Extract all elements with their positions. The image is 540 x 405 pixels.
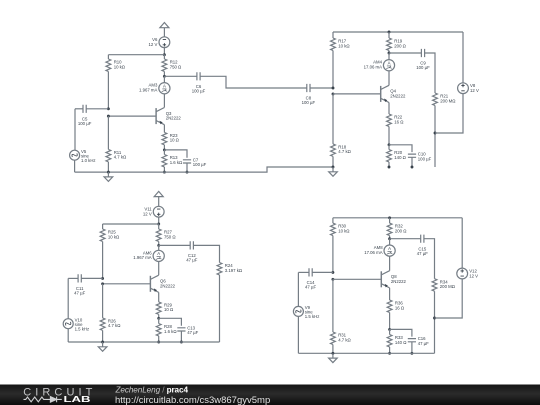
power flag V+ (stage 3) bbox=[154, 191, 163, 206]
svg-text:200 Ω: 200 Ω bbox=[394, 43, 406, 48]
wire V9 bottom lead bbox=[297, 316, 299, 353]
wire R20 top lead bbox=[388, 145, 390, 150]
wire R34 bottom to rail bbox=[434, 291, 436, 353]
svg-text:10 Ω: 10 Ω bbox=[164, 307, 174, 312]
junction emitter node stage 1 bbox=[163, 148, 166, 151]
junction C16 to ground rail bbox=[410, 352, 413, 355]
wire V12 top to supply rail bbox=[461, 218, 463, 268]
wire R20 bottom lead bbox=[388, 162, 390, 167]
junction R19 top bbox=[388, 31, 391, 34]
svg-text:1.6 kΩ: 1.6 kΩ bbox=[170, 160, 183, 165]
svg-text:100 µF: 100 µF bbox=[78, 121, 92, 126]
svg-text:47 µF: 47 µF bbox=[418, 341, 429, 346]
svg-text:2N2222: 2N2222 bbox=[160, 283, 176, 288]
svg-text:http://circuitlab.com/cs3w867g: http://circuitlab.com/cs3w867gyv5mp bbox=[115, 395, 270, 405]
svg-text:750 Ω: 750 Ω bbox=[170, 64, 182, 69]
junction emitter node stage 4 bbox=[388, 328, 391, 331]
svg-text:A: A bbox=[163, 84, 166, 89]
wire R25 top lead bbox=[102, 224, 104, 229]
junction R32 top bbox=[388, 216, 391, 219]
wire ground rail stage 1 to stage 2 bbox=[75, 167, 333, 172]
wire C14 to bias node bbox=[312, 271, 333, 273]
wire collector node to C15 bbox=[390, 238, 421, 240]
svg-text:A: A bbox=[157, 251, 160, 256]
wire ground rail stage 3 bbox=[68, 341, 219, 343]
svg-text:750 Ω: 750 Ω bbox=[164, 234, 176, 239]
wire R13 bottom lead bbox=[163, 167, 165, 172]
junction ground tap stage 2 bbox=[332, 166, 335, 169]
resistor R13 1.6 kΩ bbox=[162, 155, 183, 167]
wire R25 bottom to base node bbox=[102, 242, 104, 279]
resistor R20 140 Ω bbox=[387, 150, 407, 162]
wire Q4 base bbox=[333, 93, 381, 95]
wire AM4 top lead bbox=[388, 53, 390, 60]
source V9 sine 1.5 kHz bbox=[293, 305, 319, 319]
capacitor C9 100 µF bbox=[416, 49, 430, 70]
capacitor C6 100 µF bbox=[192, 72, 206, 93]
svg-text:10 kΩ: 10 kΩ bbox=[114, 64, 126, 69]
junction R20 to ground rail bbox=[388, 166, 391, 169]
wire R29 to emitter node bbox=[158, 314, 160, 318]
wire AM4 to Q4 collector bbox=[388, 71, 390, 86]
voltage source V6 12 V bbox=[149, 37, 170, 48]
wire V11 to supply node bbox=[158, 217, 160, 224]
resistor R18 4.7 kΩ bbox=[331, 144, 352, 156]
junction Q3 base node bbox=[107, 115, 110, 118]
wire base node to R18 bbox=[332, 94, 334, 144]
junction R28 to ground rail bbox=[157, 341, 160, 344]
wire C15 to R34 bbox=[424, 239, 435, 279]
transistor Q6 2N2222 bbox=[150, 275, 175, 292]
wire supply rail stage 1 bbox=[108, 54, 164, 56]
resistor R33 140 Ω bbox=[387, 335, 407, 347]
junction C8 input node stage 2 bbox=[332, 87, 335, 90]
wire bias node to R26 bbox=[102, 284, 104, 318]
resistor R12 750 Ω bbox=[162, 59, 182, 71]
wire AM3 to Q3 collector bbox=[163, 94, 165, 108]
svg-text:2N2222: 2N2222 bbox=[166, 116, 182, 121]
junction emitter node stage 2 bbox=[388, 143, 391, 146]
capacitor C16 47 µF bbox=[408, 336, 429, 346]
capacitor C7 100 µF bbox=[183, 157, 207, 167]
wire Q6 emitter lead bbox=[158, 292, 160, 302]
source V5 sine 1.0 kHz bbox=[70, 149, 96, 163]
resistor R29 10 Ω bbox=[156, 302, 174, 314]
wire Q3 emitter lead bbox=[163, 125, 165, 133]
wire C11 to bias node bbox=[81, 277, 102, 279]
svg-text:200 MΩ: 200 MΩ bbox=[440, 284, 456, 289]
resistor R19 200 Ω bbox=[387, 38, 407, 50]
wire R11 bottom lead bbox=[107, 162, 109, 172]
svg-text:4.7 kΩ: 4.7 kΩ bbox=[114, 155, 127, 160]
resistor R22 16 Ω bbox=[387, 114, 405, 126]
resistor R21 200 MΩ bbox=[433, 93, 457, 105]
wire R10 bottom to base node bbox=[107, 72, 109, 109]
wire C12 to R24 bbox=[193, 245, 219, 262]
wire R32 bottom lead bbox=[389, 236, 391, 239]
wire supply rail stage 3 bbox=[103, 223, 159, 225]
junction supply node stage 1 bbox=[163, 53, 166, 56]
resistor R17 10 kΩ bbox=[331, 38, 351, 50]
junction emitter node stage 3 bbox=[157, 317, 160, 320]
svg-text:A: A bbox=[388, 246, 391, 251]
svg-text:1.967 mA: 1.967 mA bbox=[139, 87, 158, 92]
junction Q6 base node bbox=[101, 282, 104, 285]
svg-text:100 µF: 100 µF bbox=[416, 65, 430, 70]
wire V6 to supply node bbox=[163, 48, 165, 55]
svg-text:100 µF: 100 µF bbox=[302, 100, 316, 105]
wire R22 to emitter node bbox=[388, 127, 390, 145]
wire ground rail stage 4 bbox=[298, 352, 434, 354]
ammeter AM8 17.06 mA bbox=[364, 245, 395, 256]
wire V5 bottom lead bbox=[74, 160, 76, 172]
svg-text:4.7 kΩ: 4.7 kΩ bbox=[338, 149, 351, 154]
svg-text:100 µF: 100 µF bbox=[418, 156, 432, 161]
wire bias node to R31 bbox=[332, 279, 334, 332]
ammeter AM6 1.967 mA bbox=[133, 250, 164, 261]
wire V10 bottom lead bbox=[67, 329, 69, 342]
svg-text:3.197 kΩ: 3.197 kΩ bbox=[225, 268, 243, 273]
svg-text:16 Ω: 16 Ω bbox=[394, 119, 404, 124]
svg-text:4.7 kΩ: 4.7 kΩ bbox=[108, 323, 121, 328]
voltage source V8 12 V bbox=[458, 83, 479, 94]
wire V8 return bbox=[435, 94, 463, 133]
ground stage 2 bbox=[329, 167, 338, 176]
junction supply node stage 3 bbox=[157, 223, 160, 226]
wire C6 to C8 interstage bbox=[200, 76, 307, 88]
resistor R36 16 Ω bbox=[387, 300, 405, 312]
capacitor C13 47 µF bbox=[177, 325, 198, 335]
wire R19 bottom lead bbox=[388, 51, 390, 54]
wire C9 to R21 bbox=[425, 53, 435, 93]
svg-text:100 µF: 100 µF bbox=[192, 89, 206, 94]
resistor R23 10 Ω bbox=[162, 132, 180, 144]
wire R13 top lead bbox=[163, 150, 165, 155]
svg-text:12 V: 12 V bbox=[470, 88, 479, 93]
wire Q6 base bbox=[103, 283, 151, 285]
svg-text:140 Ω: 140 Ω bbox=[395, 340, 407, 345]
svg-text:47 µF: 47 µF bbox=[417, 251, 428, 256]
wire C8 to stage 2 base node bbox=[310, 87, 333, 89]
wire R36 to emitter node bbox=[389, 313, 391, 330]
wire C5 to bias node bbox=[86, 108, 108, 110]
resistor R30 10 kΩ bbox=[331, 223, 351, 235]
wire AM8 top lead bbox=[389, 239, 391, 246]
capacitor C5 100 µF bbox=[78, 105, 92, 126]
wire R10 top lead bbox=[107, 55, 109, 59]
wire R33 bottom lead bbox=[389, 347, 391, 353]
wire R28 bottom lead bbox=[158, 336, 160, 342]
transistor Q4 2N2222 bbox=[381, 85, 406, 102]
junction C13 to ground rail bbox=[180, 341, 183, 344]
resistor R25 10 kΩ bbox=[100, 229, 120, 241]
wire emitter node to C7 bbox=[164, 150, 187, 158]
wire R31 bottom lead bbox=[332, 345, 334, 354]
junction C11 to bias divider bbox=[101, 277, 104, 280]
junction Q4 base node bbox=[332, 93, 335, 96]
resistor R11 4.7 kΩ bbox=[106, 149, 127, 161]
junction ground tap stage 3 bbox=[101, 341, 104, 344]
wire AM6 top lead bbox=[158, 245, 160, 250]
svg-text:17.06 mA: 17.06 mA bbox=[364, 250, 383, 255]
svg-text:1.967 mA: 1.967 mA bbox=[133, 255, 152, 260]
junction collector node stage 3 bbox=[157, 244, 160, 247]
wire R17 bottom to base node bbox=[332, 51, 334, 89]
svg-text:1.5 kHz: 1.5 kHz bbox=[75, 327, 90, 332]
resistor R24 3.197 kΩ bbox=[217, 263, 243, 275]
wire V9 top lead bbox=[297, 272, 299, 306]
wire R30 top lead bbox=[332, 218, 334, 223]
wire R26 bottom lead bbox=[102, 330, 104, 342]
wire Q8 base bbox=[333, 278, 381, 280]
ground stage 3 bbox=[98, 342, 107, 351]
resistor R27 750 Ω bbox=[156, 229, 176, 241]
svg-text:12 V: 12 V bbox=[143, 212, 152, 217]
resistor R10 10 kΩ bbox=[106, 59, 126, 71]
wire R32 top lead bbox=[389, 218, 391, 223]
svg-text:2N2222: 2N2222 bbox=[390, 94, 406, 99]
svg-text:ZechenLeng / prac4: ZechenLeng / prac4 bbox=[115, 385, 189, 394]
svg-text:16 Ω: 16 Ω bbox=[395, 305, 405, 310]
wire collector node to C12 bbox=[159, 244, 191, 246]
svg-text:1.0 kHz: 1.0 kHz bbox=[81, 158, 96, 163]
wire V12 return bbox=[435, 279, 463, 318]
svg-text:10 Ω: 10 Ω bbox=[170, 138, 180, 143]
wire R30 bottom to base node bbox=[332, 236, 334, 273]
junction collector node stage 4 bbox=[388, 237, 391, 240]
wire R23 to emitter node bbox=[163, 145, 165, 150]
ground stage 4 bbox=[329, 353, 338, 362]
svg-text:A: A bbox=[388, 61, 391, 66]
transistor Q8 2N2222 bbox=[381, 271, 406, 288]
svg-text:10 kΩ: 10 kΩ bbox=[338, 228, 350, 233]
transistor Q3 2N2222 bbox=[156, 108, 181, 125]
wire C10 bottom lead bbox=[411, 157, 413, 167]
wire R21 bottom to rail bbox=[434, 106, 436, 168]
wire R17 top lead bbox=[332, 32, 334, 38]
wire R18 bottom lead bbox=[332, 156, 334, 167]
junction Q8 base node bbox=[331, 278, 334, 281]
junction V12 return node bbox=[433, 317, 436, 320]
svg-text:47 µF: 47 µF bbox=[186, 258, 197, 263]
wire Q4 emitter lead bbox=[388, 103, 390, 115]
resistor R34 200 MΩ bbox=[432, 279, 456, 291]
svg-text:12 V: 12 V bbox=[149, 42, 158, 47]
wire top supply rail stage 2 bbox=[333, 31, 463, 33]
wire C7 bottom lead bbox=[186, 163, 188, 172]
resistor R32 200 Ω bbox=[387, 223, 407, 235]
wire emitter node to C13 bbox=[159, 318, 182, 326]
junction C10 to ground rail bbox=[411, 166, 414, 169]
svg-text:47 µF: 47 µF bbox=[74, 291, 85, 296]
wire collector node to C6 bbox=[164, 75, 197, 77]
wire V10 to C11 bbox=[68, 277, 78, 279]
svg-text:200 MΩ: 200 MΩ bbox=[440, 98, 456, 103]
svg-text:1.6 kΩ: 1.6 kΩ bbox=[164, 329, 177, 334]
wire top supply rail stage 4 bbox=[333, 217, 462, 219]
svg-text:4.7 kΩ: 4.7 kΩ bbox=[338, 337, 351, 342]
wire emitter node to C16 bbox=[390, 329, 412, 336]
svg-text:1.5 kHz: 1.5 kHz bbox=[305, 314, 320, 319]
svg-text:2N2222: 2N2222 bbox=[391, 279, 407, 284]
junction R13 to ground rail bbox=[163, 171, 166, 174]
wire V8 top to supply rail bbox=[462, 32, 464, 83]
svg-text:47 µF: 47 µF bbox=[187, 330, 198, 335]
junction C7 to ground rail bbox=[186, 171, 189, 174]
svg-text:10 kΩ: 10 kΩ bbox=[108, 234, 120, 239]
wire AM6 to Q6 collector bbox=[158, 261, 160, 275]
resistor R28 1.6 kΩ bbox=[156, 324, 177, 336]
voltage source V11 12 V bbox=[143, 206, 164, 217]
wire collector node to C9 bbox=[389, 52, 421, 54]
wire V9 to C14 bbox=[298, 271, 309, 273]
wire C13 bottom lead bbox=[180, 331, 182, 342]
CircuitLab logo resistor-diode glyph bbox=[24, 397, 62, 403]
svg-text:LAB: LAB bbox=[64, 395, 91, 404]
wire R27 top lead bbox=[158, 224, 160, 229]
resistor R26 4.7 kΩ bbox=[100, 318, 121, 330]
wire Q8 emitter lead bbox=[389, 288, 391, 300]
junction ground tap stage 4 bbox=[331, 352, 334, 355]
svg-text:17.06 mA: 17.06 mA bbox=[364, 64, 383, 69]
ground stage 1 bbox=[104, 172, 113, 181]
wire Q3 base bbox=[108, 115, 156, 117]
junction ground tap stage 1 bbox=[107, 171, 110, 174]
wire V5 to C5 bbox=[75, 108, 83, 110]
capacitor C12 47 µF bbox=[186, 241, 197, 262]
ammeter AM3 1.967 mA bbox=[139, 83, 170, 94]
junction C14 input node stage 4 bbox=[331, 271, 334, 274]
junction R33 to ground rail bbox=[388, 352, 391, 355]
wire ammeter AM3 top lead bbox=[163, 76, 165, 83]
svg-text:200 Ω: 200 Ω bbox=[395, 228, 407, 233]
svg-text:100 µF: 100 µF bbox=[193, 162, 207, 167]
wire emitter node to C10 bbox=[389, 145, 412, 152]
wire bias node to R11 bbox=[107, 116, 109, 149]
wire R12 bottom lead bbox=[163, 72, 165, 77]
capacitor C10 100 µF bbox=[408, 152, 432, 162]
voltage source V12 12 V bbox=[457, 268, 478, 279]
junction C5 to bias divider bbox=[107, 107, 110, 110]
junction collector node stage 1 bbox=[163, 75, 166, 78]
source V10 sine 1.5 kHz bbox=[63, 317, 89, 331]
wire V5 top lead bbox=[74, 109, 76, 151]
capacitor C15 47 µF bbox=[417, 235, 428, 256]
wire V10 top lead bbox=[67, 278, 69, 318]
svg-text:12 V: 12 V bbox=[469, 273, 478, 278]
footer background bar bbox=[0, 385, 540, 405]
svg-text:140 Ω: 140 Ω bbox=[394, 155, 406, 160]
wire R33 top lead bbox=[389, 329, 391, 334]
ammeter AM4 17.06 mA bbox=[364, 60, 395, 71]
svg-text:10 kΩ: 10 kΩ bbox=[338, 43, 350, 48]
wire C16 bottom lead bbox=[411, 342, 413, 354]
capacitor C14 47 µF bbox=[305, 268, 316, 289]
junction collector node stage 2 bbox=[388, 52, 391, 55]
svg-text:47 µF: 47 µF bbox=[305, 285, 316, 290]
wire R12 top lead bbox=[163, 55, 165, 59]
wire R27 bottom lead bbox=[158, 242, 160, 246]
junction V8 return node bbox=[434, 132, 437, 135]
wire AM8 to Q8 collector bbox=[389, 256, 391, 271]
wire R28 top lead bbox=[158, 318, 160, 323]
capacitor C11 47 µF bbox=[74, 274, 85, 295]
power flag V+ (stage 1) bbox=[160, 23, 169, 37]
wire R24 bottom to rail bbox=[219, 275, 221, 342]
capacitor C8 100 µF bbox=[302, 84, 316, 105]
resistor R31 4.7 kΩ bbox=[331, 332, 352, 344]
wire R19 top lead bbox=[388, 32, 390, 38]
